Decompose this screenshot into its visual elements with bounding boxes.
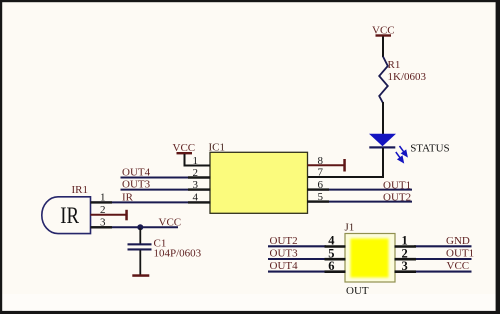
svg-text:STATUS: STATUS	[410, 142, 449, 154]
svg-text:IR1: IR1	[72, 184, 89, 196]
svg-text:GND: GND	[446, 235, 470, 247]
svg-text:IC1: IC1	[209, 142, 226, 154]
svg-text:J1: J1	[345, 222, 355, 234]
svg-text:IR: IR	[122, 192, 134, 204]
svg-text:1K/0603: 1K/0603	[388, 71, 427, 83]
svg-text:8: 8	[318, 155, 324, 167]
svg-text:OUT1: OUT1	[383, 180, 411, 192]
svg-text:1: 1	[193, 155, 199, 167]
svg-text:OUT4: OUT4	[270, 260, 299, 272]
svg-text:OUT2: OUT2	[383, 192, 411, 204]
svg-text:R1: R1	[388, 59, 401, 71]
svg-text:VCC: VCC	[159, 216, 182, 228]
svg-text:6: 6	[328, 259, 334, 273]
svg-text:VCC: VCC	[447, 260, 470, 272]
svg-text:OUT2: OUT2	[270, 235, 298, 247]
svg-text:3: 3	[402, 259, 408, 273]
svg-text:OUT3: OUT3	[122, 179, 151, 191]
svg-text:104P/0603: 104P/0603	[154, 248, 202, 260]
svg-text:OUT1: OUT1	[446, 247, 474, 259]
svg-text:IR: IR	[60, 203, 79, 228]
svg-text:OUT3: OUT3	[270, 247, 299, 259]
svg-text:7: 7	[318, 166, 324, 178]
svg-text:OUT4: OUT4	[122, 166, 151, 178]
